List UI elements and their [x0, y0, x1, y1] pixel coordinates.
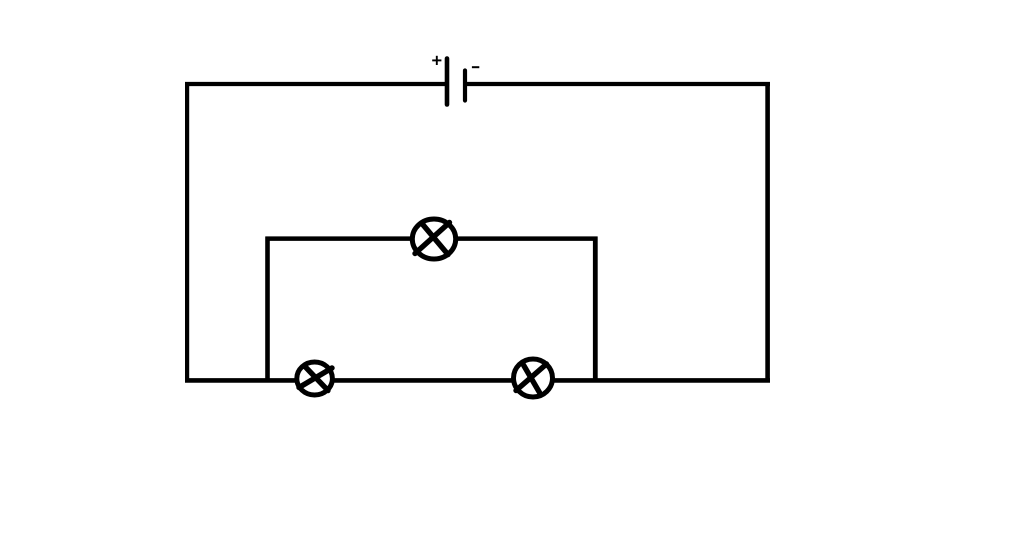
wire inner left branch: [265, 237, 270, 381]
label + (battery positive): [432, 56, 441, 65]
battery B1 negative plate: [463, 71, 467, 101]
battery B1 positive plate: [445, 59, 450, 105]
wire inner top, right segment: [456, 236, 598, 241]
wire bottom, left segment: [185, 378, 298, 383]
wire top-right: battery - plate to outer corner: [465, 82, 770, 86]
lamp L2 (bottom left): [297, 362, 333, 395]
lamp L3 (bottom right): [514, 359, 553, 397]
label - (battery negative): [472, 66, 479, 68]
lamp L1 (top branch): [412, 219, 455, 259]
wire inner top, left segment: [266, 236, 414, 241]
wire inner right branch: [593, 237, 598, 381]
wire bottom, middle segment: [331, 378, 513, 383]
wire outer left side: [185, 82, 189, 383]
wire top-left: outer corner to battery + plate: [185, 82, 447, 86]
wire bottom, right segment: [551, 378, 770, 383]
wire outer right side: [765, 82, 770, 383]
